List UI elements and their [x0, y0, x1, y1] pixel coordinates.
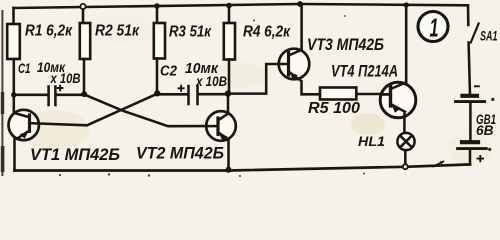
svg-text:х 10В: х 10В [50, 71, 81, 86]
svg-text:R2 51к: R2 51к [95, 23, 140, 40]
svg-text:R4 6,2к: R4 6,2к [243, 23, 291, 40]
svg-text:VT2 МП42Б: VT2 МП42Б [136, 145, 224, 163]
svg-text:6В: 6В [476, 123, 494, 138]
svg-text:VT3 МП42Б: VT3 МП42Б [307, 36, 384, 54]
svg-text:R1 6,2к: R1 6,2к [25, 23, 73, 40]
svg-text:SA1: SA1 [480, 29, 498, 44]
svg-text:1: 1 [430, 13, 439, 43]
svg-text:C2: C2 [160, 64, 177, 80]
svg-text:HL1: HL1 [358, 133, 385, 149]
svg-text:х 10В: х 10В [195, 74, 227, 89]
svg-text:R3 51к: R3 51к [169, 24, 212, 41]
svg-text:VT4 П214А: VT4 П214А [331, 63, 398, 81]
svg-text:VT1 МП42Б: VT1 МП42Б [30, 146, 120, 164]
svg-text:C1: C1 [18, 61, 31, 76]
svg-text:R5 100: R5 100 [308, 100, 360, 117]
